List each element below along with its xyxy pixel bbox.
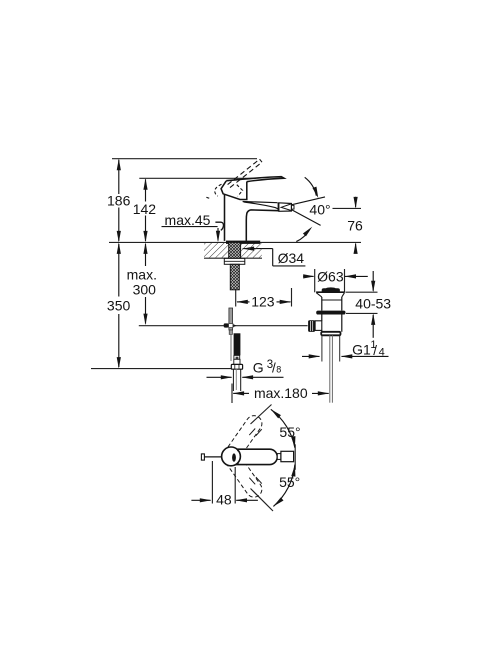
svg-text:55°: 55° bbox=[279, 424, 300, 440]
svg-text:186: 186 bbox=[107, 193, 131, 209]
svg-text:55°: 55° bbox=[279, 474, 300, 490]
svg-text:48: 48 bbox=[216, 491, 232, 507]
svg-text:max.: max. bbox=[127, 267, 157, 283]
svg-text:76: 76 bbox=[347, 217, 363, 233]
svg-text:8: 8 bbox=[276, 364, 281, 374]
svg-text:40-53: 40-53 bbox=[355, 296, 391, 312]
svg-text:Ø63: Ø63 bbox=[317, 268, 344, 284]
svg-text:4: 4 bbox=[379, 347, 385, 359]
svg-text:123: 123 bbox=[251, 294, 275, 310]
svg-text:350: 350 bbox=[107, 298, 131, 314]
svg-text:max.180: max.180 bbox=[254, 385, 308, 401]
svg-text:Ø34: Ø34 bbox=[278, 250, 305, 266]
svg-text:G1: G1 bbox=[352, 341, 371, 357]
svg-text:max.45: max.45 bbox=[165, 212, 211, 228]
svg-text:142: 142 bbox=[133, 201, 157, 217]
svg-text:G: G bbox=[253, 360, 264, 376]
svg-text:/: / bbox=[373, 343, 377, 358]
svg-text:40°: 40° bbox=[309, 201, 330, 217]
svg-text:300: 300 bbox=[133, 281, 157, 297]
